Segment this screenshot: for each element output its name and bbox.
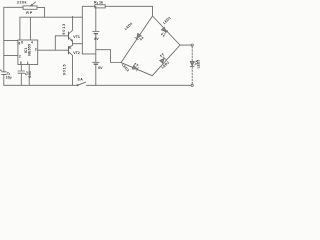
svg-text:+: +	[0, 69, 2, 73]
svg-text:6: 6	[19, 41, 21, 45]
svg-text:NE555: NE555	[28, 44, 32, 56]
svg-text:5: 5	[20, 61, 22, 65]
svg-text:8: 8	[21, 41, 23, 45]
svg-text:1: 1	[27, 61, 29, 65]
svg-text:VT1: VT1	[73, 35, 80, 39]
svg-text:3: 3	[35, 47, 37, 51]
svg-text:220k: 220k	[17, 1, 27, 5]
svg-text:LED5: LED5	[197, 60, 200, 69]
svg-text:10μ: 10μ	[6, 76, 12, 80]
svg-text:9015: 9015	[63, 63, 67, 75]
svg-text:6V: 6V	[94, 37, 99, 41]
svg-text:SA: SA	[77, 78, 83, 82]
svg-text:0.01: 0.01	[28, 71, 32, 78]
svg-text:RP: RP	[26, 11, 33, 15]
svg-text:VT2: VT2	[73, 51, 80, 55]
svg-text:9013: 9013	[62, 23, 66, 35]
svg-text:R1 1k: R1 1k	[94, 0, 103, 5]
svg-text:2: 2	[19, 55, 21, 59]
svg-text:6V: 6V	[98, 66, 103, 70]
